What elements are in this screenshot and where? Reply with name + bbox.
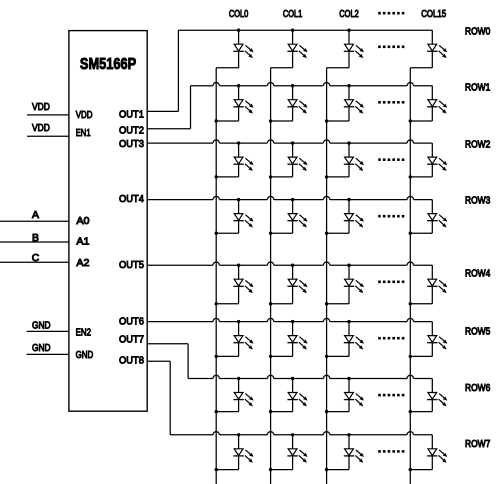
LED D7-0 bbox=[215, 433, 254, 471]
pin label A0 bbox=[76, 216, 89, 227]
net label GND bbox=[32, 321, 51, 332]
svg-text:EN1: EN1 bbox=[76, 128, 91, 139]
pin label EN1 bbox=[76, 128, 91, 139]
svg-text:VDD: VDD bbox=[76, 110, 93, 121]
svg-text:COL15: COL15 bbox=[421, 9, 446, 20]
ellipsis COL2..COL15 labels bbox=[378, 12, 404, 15]
LED D0-0 bbox=[216, 29, 253, 68]
svg-text:GND: GND bbox=[76, 350, 94, 361]
svg-text:OUT3: OUT3 bbox=[119, 139, 144, 150]
svg-text:ROW7: ROW7 bbox=[465, 439, 490, 450]
svg-text:OUT4: OUT4 bbox=[119, 194, 144, 205]
svg-text:ROW4: ROW4 bbox=[465, 268, 490, 279]
LED D3-2 bbox=[325, 198, 364, 235]
svg-text:EN2: EN2 bbox=[76, 327, 92, 338]
node label ROW6 bbox=[465, 383, 490, 394]
wire GND to pin EN2 bbox=[27, 330, 69, 332]
svg-text:GND: GND bbox=[32, 321, 51, 332]
LED D3-1 bbox=[269, 198, 308, 235]
LED D6-15 bbox=[409, 379, 448, 414]
pin label OUT1 bbox=[119, 110, 144, 121]
net label A bbox=[32, 210, 39, 221]
pin label OUT4 bbox=[119, 194, 144, 205]
ellipsis ROW1 omitted columns bbox=[378, 101, 404, 104]
LED D6-1 bbox=[269, 377, 308, 414]
svg-text:OUT2: OUT2 bbox=[119, 125, 144, 136]
LED D1-15 bbox=[409, 86, 448, 123]
ellipsis ROW3 omitted columns bbox=[378, 215, 404, 218]
wire ROW3 line bbox=[147, 196, 432, 199]
svg-text:COL2: COL2 bbox=[339, 9, 359, 20]
wire ROW2 line bbox=[147, 140, 432, 143]
node label ROW7 bbox=[465, 439, 490, 450]
pin label VDD bbox=[76, 110, 93, 121]
wire ROW5 line bbox=[147, 318, 432, 321]
pin label OUT7 bbox=[119, 334, 144, 345]
LED D3-15 bbox=[409, 200, 448, 235]
LED D7-1 bbox=[269, 433, 308, 471]
wire ROW1 line bbox=[191, 83, 433, 86]
wire OUT1 riser bbox=[147, 30, 178, 111]
wire B to pin A1 bbox=[0, 241, 69, 243]
net label GND bbox=[32, 343, 51, 354]
svg-text:VDD: VDD bbox=[32, 102, 50, 113]
LED D4-15 bbox=[409, 265, 448, 305]
node label COL0 bbox=[229, 9, 249, 20]
svg-text:ROW1: ROW1 bbox=[465, 82, 490, 93]
svg-text:SM5166P: SM5166P bbox=[80, 56, 137, 73]
pin label OUT5 bbox=[119, 260, 144, 271]
LED D5-1 bbox=[269, 320, 308, 358]
IC U1 SM5166P body bbox=[69, 31, 147, 412]
pin label OUT6 bbox=[119, 316, 144, 327]
net label VDD bbox=[32, 123, 50, 134]
svg-text:A0: A0 bbox=[76, 216, 89, 227]
svg-text:COL1: COL1 bbox=[283, 9, 303, 20]
node label ROW3 bbox=[465, 195, 490, 206]
wire ROW7 line bbox=[170, 432, 432, 435]
svg-text:OUT8: OUT8 bbox=[119, 356, 144, 367]
svg-text:ROW3: ROW3 bbox=[465, 195, 490, 206]
wire VDD to pin VDD bbox=[27, 114, 69, 116]
node label ROW0 bbox=[465, 27, 490, 38]
LED D4-1 bbox=[269, 264, 308, 306]
node label COL15 bbox=[421, 9, 446, 20]
LED D5-2 bbox=[325, 320, 364, 358]
wire ROW0 line bbox=[178, 29, 432, 31]
wire C to pin A2 bbox=[0, 261, 69, 263]
LED D2-2 bbox=[325, 141, 364, 178]
svg-text:A1: A1 bbox=[76, 236, 89, 247]
LED D7-2 bbox=[325, 433, 364, 471]
LED D0-1 bbox=[271, 29, 308, 68]
ellipsis ROW7 omitted columns bbox=[378, 450, 404, 453]
node label COL2 bbox=[339, 9, 359, 20]
wire COL1 cathode bus bbox=[270, 68, 272, 484]
pin label A2 bbox=[76, 258, 89, 269]
svg-text:B: B bbox=[32, 233, 39, 244]
label U1 SM5166P bbox=[80, 56, 137, 73]
pin label EN2 bbox=[76, 327, 92, 338]
node label ROW1 bbox=[465, 82, 490, 93]
wire GND to pin GND bbox=[27, 353, 69, 355]
ellipsis ROW5 omitted columns bbox=[378, 337, 404, 340]
LED D1-0 bbox=[215, 84, 254, 123]
wire ROW4 line bbox=[147, 262, 432, 265]
node label ROW2 bbox=[465, 139, 490, 150]
svg-text:ROW2: ROW2 bbox=[465, 139, 490, 150]
wire VDD to pin EN1 bbox=[27, 135, 69, 137]
pin label OUT2 bbox=[119, 125, 144, 136]
wire COL0 cathode bus bbox=[215, 68, 217, 484]
LED D2-0 bbox=[215, 141, 254, 178]
pin label GND bbox=[76, 350, 94, 361]
LED D6-2 bbox=[325, 377, 364, 414]
net label B bbox=[32, 233, 39, 244]
svg-text:ROW5: ROW5 bbox=[465, 326, 490, 337]
wire OUT8 dropper bbox=[147, 361, 170, 435]
LED D4-0 bbox=[215, 264, 254, 306]
ellipsis ROW6 omitted columns bbox=[378, 394, 404, 397]
svg-text:OUT6: OUT6 bbox=[119, 316, 144, 327]
svg-text:C: C bbox=[32, 253, 40, 264]
LED D6-0 bbox=[215, 377, 254, 414]
LED D5-15 bbox=[409, 322, 448, 358]
pin label A1 bbox=[76, 236, 89, 247]
LED D5-0 bbox=[215, 320, 254, 358]
net label C bbox=[32, 253, 40, 264]
pin label OUT3 bbox=[119, 139, 144, 150]
ellipsis ROW0 omitted columns bbox=[378, 46, 404, 49]
svg-text:A2: A2 bbox=[76, 258, 89, 269]
LED D2-1 bbox=[269, 141, 308, 178]
wire OUT2 riser bbox=[147, 86, 190, 129]
LED D0-2 bbox=[327, 29, 364, 68]
svg-text:A: A bbox=[32, 210, 39, 221]
LED D4-2 bbox=[325, 264, 364, 306]
net label VDD bbox=[32, 102, 50, 113]
LED D3-0 bbox=[215, 198, 254, 235]
svg-text:OUT5: OUT5 bbox=[119, 260, 144, 271]
node label COL1 bbox=[283, 9, 303, 20]
svg-text:ROW0: ROW0 bbox=[465, 27, 490, 38]
LED D0-15 bbox=[410, 30, 447, 68]
wire COL15 cathode bus bbox=[409, 68, 411, 484]
svg-text:VDD: VDD bbox=[32, 123, 50, 134]
wire OUT7 dropper bbox=[147, 344, 188, 379]
node label ROW4 bbox=[465, 268, 490, 279]
svg-text:COL0: COL0 bbox=[229, 9, 249, 20]
svg-text:GND: GND bbox=[32, 343, 51, 354]
LED D1-2 bbox=[325, 84, 364, 123]
LED D1-1 bbox=[269, 84, 308, 123]
svg-text:OUT1: OUT1 bbox=[119, 110, 144, 121]
LED D2-15 bbox=[409, 143, 448, 178]
svg-text:ROW6: ROW6 bbox=[465, 383, 490, 394]
svg-text:OUT7: OUT7 bbox=[119, 334, 144, 345]
pin label OUT8 bbox=[119, 356, 144, 367]
wire COL2 cathode bus bbox=[326, 68, 328, 484]
LED D7-15 bbox=[409, 435, 448, 472]
ellipsis ROW4 omitted columns bbox=[378, 281, 404, 284]
ellipsis ROW2 omitted columns bbox=[378, 158, 404, 161]
node label ROW5 bbox=[465, 326, 490, 337]
wire A to pin A0 bbox=[0, 220, 69, 222]
wire ROW6 line bbox=[188, 375, 432, 378]
